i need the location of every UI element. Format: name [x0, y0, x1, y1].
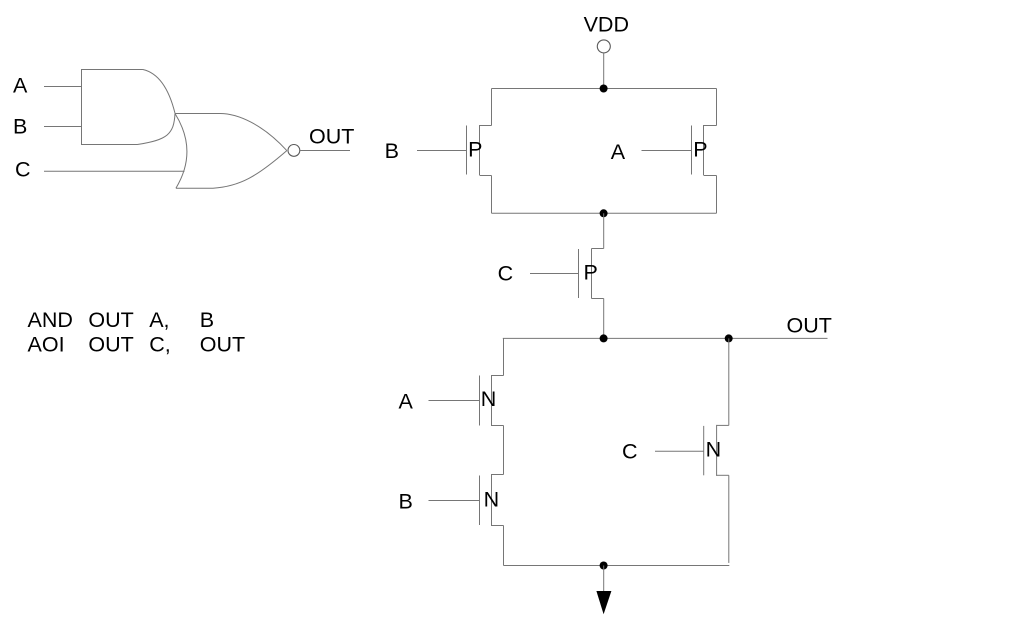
- wire VDD to top rail: [603, 53, 605, 89]
- wire input A: [44, 86, 82, 88]
- wire left nmos branch upper: [503, 338, 505, 375]
- wire to ground: [603, 566, 605, 592]
- AND gate U1: [82, 70, 176, 145]
- svg-text:P: P: [468, 138, 482, 162]
- svg-text:A: A: [611, 140, 626, 164]
- svg-text:OUT: OUT: [787, 313, 832, 337]
- wire right nmos branch upper: [728, 338, 730, 425]
- svg-text:C: C: [498, 261, 514, 285]
- wire bottom rail GND net: [504, 565, 730, 567]
- svg-text:C: C: [15, 158, 31, 182]
- nmos Q6 gate C: [704, 425, 729, 476]
- junction dot mid rail: [600, 209, 608, 217]
- nmos Q5 gate B: [480, 474, 504, 526]
- wire right pmos branch lower: [716, 176, 718, 214]
- wire mid pmos drain: [603, 213, 605, 248]
- wire gate of Q3: [530, 273, 579, 275]
- svg-text:A: A: [399, 390, 414, 414]
- wire input C: [44, 170, 185, 172]
- svg-text:A: A: [13, 73, 28, 97]
- junction dot VDD rail: [600, 85, 608, 93]
- wire gate of Q4: [429, 400, 480, 402]
- wire gate of Q1: [417, 150, 467, 152]
- junction dot OUT left: [600, 334, 608, 342]
- wire between Q4 and Q5: [503, 426, 505, 475]
- ground arrow: [596, 591, 611, 614]
- junction dot OUT right: [725, 334, 733, 342]
- NOR output bubble: [288, 145, 300, 157]
- junction dot bottom rail: [600, 562, 608, 570]
- wire left pmos branch upper: [491, 89, 493, 126]
- wire gate of Q2: [642, 150, 692, 152]
- wire gate of Q6: [655, 450, 704, 452]
- svg-text:N: N: [484, 488, 500, 512]
- nmos Q4 gate A: [480, 375, 504, 426]
- svg-text:ANDOUTA,B: ANDOUTA,B: [28, 308, 215, 332]
- wire right nmos branch lower: [728, 475, 730, 563]
- NOR gate U2: [175, 114, 287, 189]
- svg-text:B: B: [399, 490, 413, 514]
- svg-text:N: N: [481, 387, 497, 411]
- wire gate output OUT: [300, 150, 350, 152]
- wire mid rail below pmos pair: [492, 212, 717, 214]
- wire gate of Q5: [429, 500, 480, 502]
- svg-text:VDD: VDD: [584, 13, 629, 37]
- pmos Q1 gate B: [467, 125, 492, 176]
- wire mid pmos source to OUT rail: [603, 299, 605, 339]
- svg-text:P: P: [693, 138, 707, 162]
- pmos Q3 gate C: [579, 249, 604, 299]
- svg-text:N: N: [706, 437, 722, 461]
- svg-text:B: B: [13, 114, 27, 138]
- pmos Q2 gate A: [692, 125, 717, 176]
- wire left nmos branch lower: [503, 526, 505, 566]
- wire right pmos branch upper: [716, 89, 718, 126]
- VDD terminal circle: [597, 40, 610, 53]
- svg-text:C: C: [622, 440, 638, 464]
- svg-text:AOIOUTC,OUT: AOIOUTC,OUT: [28, 333, 246, 357]
- svg-text:B: B: [385, 139, 399, 163]
- wire input B: [44, 126, 82, 128]
- svg-text:P: P: [584, 260, 598, 284]
- svg-text:OUT: OUT: [309, 125, 354, 149]
- wire left pmos branch lower: [491, 176, 493, 214]
- wire OUT rail net: [503, 337, 828, 339]
- wire top rail VDD net: [492, 88, 717, 90]
